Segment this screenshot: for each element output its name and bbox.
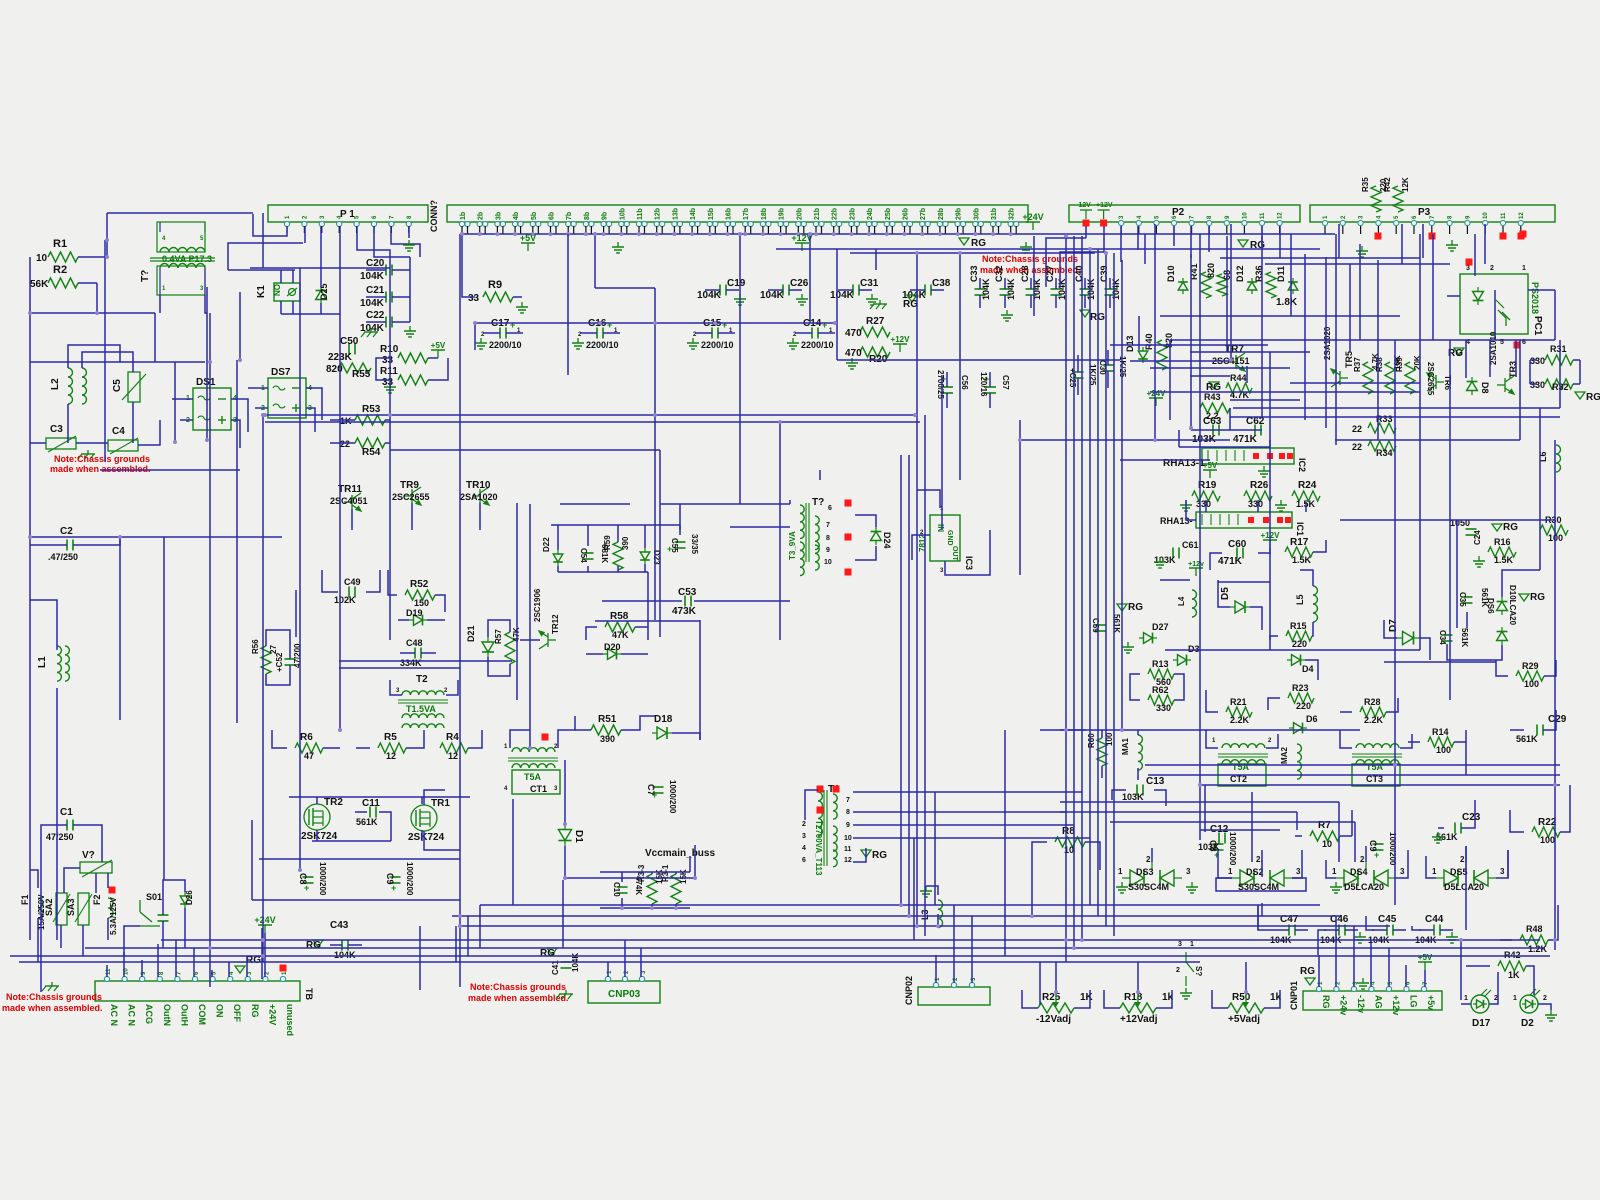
wire v <box>1226 236 1228 352</box>
svg-text:C57: C57 <box>1001 375 1010 390</box>
ground <box>1335 882 1337 887</box>
svg-text:23b: 23b <box>849 208 856 220</box>
svg-text:D18: D18 <box>654 714 673 725</box>
wire C3-C4 wires <box>30 442 46 444</box>
svg-text:22: 22 <box>1352 424 1362 434</box>
wire R3 leads <box>651 872 653 874</box>
svg-text:R8: R8 <box>1062 826 1075 837</box>
capacitor C13 <box>1136 785 1138 796</box>
resistor R28 <box>1360 707 1386 717</box>
capacitor C32 <box>1000 288 1011 290</box>
wire C48 lead2 <box>421 652 436 654</box>
svg-text:1000/200: 1000/200 <box>405 862 414 896</box>
wire h <box>1290 382 1420 384</box>
svg-text:1.5K: 1.5K <box>1292 555 1312 565</box>
wire F2 wires <box>107 918 109 940</box>
power +24V <box>1155 398 1157 406</box>
capacitor C30 <box>1103 364 1114 366</box>
capacitor C62 <box>1254 425 1256 436</box>
red square <box>845 569 852 576</box>
red square <box>833 786 840 793</box>
resistor R53 <box>355 415 385 425</box>
wire R5 wires <box>406 730 424 748</box>
svg-text:C34: C34 <box>1438 630 1447 645</box>
wire Vccmain wires <box>694 845 696 856</box>
wire h <box>1265 263 1450 265</box>
svg-text:C38: C38 <box>932 278 951 289</box>
resistor R36 <box>1266 272 1276 298</box>
svg-text:R21: R21 <box>1230 697 1247 707</box>
svg-text:+12V: +12V <box>1096 202 1113 209</box>
transistor TR12 <box>539 631 556 649</box>
wire C52 to T2 <box>339 660 512 662</box>
wire R56 C52 net2 <box>266 674 290 685</box>
capacitor C57 <box>984 386 996 388</box>
svg-text:C48: C48 <box>406 638 423 648</box>
wire +5V lead <box>1424 970 1426 987</box>
resistor R51 <box>591 725 621 735</box>
wire R15 wires <box>1270 636 1278 650</box>
svg-text:R31: R31 <box>1550 344 1567 354</box>
wire h <box>1150 391 1420 393</box>
svg-text:30b: 30b <box>973 208 980 220</box>
svg-text:D24: D24 <box>882 532 892 549</box>
svg-text:C45: C45 <box>1378 914 1397 925</box>
svg-text:25b: 25b <box>885 208 892 220</box>
wire h <box>1170 339 1555 341</box>
wire v <box>1377 260 1379 383</box>
wire T1 primary <box>205 295 207 313</box>
transformer T? 0.4VA <box>159 222 161 232</box>
wire v <box>567 234 569 375</box>
wire h <box>265 421 920 423</box>
svg-text:R15: R15 <box>1290 621 1307 631</box>
wire v <box>564 782 566 824</box>
svg-text:12: 12 <box>448 751 458 761</box>
wire P1 pin5 wire <box>357 226 390 268</box>
svg-text:DS4: DS4 <box>1350 867 1368 877</box>
wire DS4 wires <box>1326 860 1336 878</box>
wire C11 right <box>379 812 391 841</box>
potentiometer R50 <box>1228 1003 1264 1013</box>
svg-text:CNP02: CNP02 <box>904 976 914 1005</box>
wire P2 pin drop <box>1190 226 1192 258</box>
wire h <box>10 955 1550 957</box>
svg-text:390: 390 <box>600 734 615 744</box>
svg-text:R40: R40 <box>1144 333 1154 350</box>
wire R52 wires <box>435 595 445 612</box>
wire R22 wires <box>1560 785 1570 832</box>
svg-text:+24V: +24V <box>267 1004 277 1025</box>
wire v <box>1199 234 1201 840</box>
wire v <box>1113 253 1115 936</box>
wire h2 <box>558 571 648 573</box>
svg-text:12: 12 <box>844 857 852 864</box>
svg-text:33: 33 <box>382 355 394 366</box>
wire h2 <box>385 442 390 444</box>
wire P2 pin2 route <box>1060 252 1104 287</box>
svg-text:2200/10: 2200/10 <box>801 340 834 350</box>
ground <box>1025 242 1027 247</box>
capacitor C27 <box>1051 288 1062 290</box>
wire v2 <box>1251 792 1253 862</box>
wire v2 <box>1351 810 1353 836</box>
svg-text:9b: 9b <box>602 212 609 220</box>
wire v <box>96 283 98 313</box>
wire D7 wires <box>1419 638 1430 660</box>
svg-text:2: 2 <box>1460 855 1465 864</box>
ground <box>1451 932 1453 937</box>
svg-text:C29: C29 <box>1548 714 1567 725</box>
wire C13 wires <box>1154 790 1166 806</box>
red square <box>1466 259 1473 266</box>
wire C47 row wires <box>1258 905 1274 930</box>
wire R50 wires <box>1212 990 1228 1008</box>
wire h2 <box>1340 519 1555 521</box>
wire R6 wires <box>272 730 287 748</box>
svg-text:DS5: DS5 <box>1450 867 1468 877</box>
wire h <box>250 267 390 269</box>
svg-text:1: 1 <box>1332 867 1337 876</box>
wire v2 <box>644 564 646 572</box>
svg-text:T2700VA_T113: T2700VA_T113 <box>814 820 823 876</box>
power +12V <box>801 243 803 251</box>
wire v2 <box>1489 340 1491 377</box>
svg-text:+5v: +5v <box>1426 995 1436 1010</box>
wire DS1 wires <box>180 419 193 421</box>
svg-text:2b: 2b <box>478 212 485 220</box>
ground RG <box>1575 392 1585 399</box>
svg-text:R59: R59 <box>603 535 612 550</box>
capacitor C17 <box>499 328 501 339</box>
wire v <box>1419 234 1421 650</box>
capacitor C45 <box>1386 925 1388 936</box>
regulator IC3 <box>930 515 960 561</box>
wire v2 <box>1354 822 1356 862</box>
svg-text:2200/10: 2200/10 <box>701 340 734 350</box>
wire h <box>480 904 1320 906</box>
wire TR source link <box>312 840 391 842</box>
wire R29 wires <box>1544 660 1556 676</box>
capacitor C35 <box>1462 596 1473 598</box>
wire h2 <box>1060 801 1339 803</box>
wire h <box>390 449 660 451</box>
diode D19 <box>409 615 427 626</box>
wire C1 wires <box>41 825 52 992</box>
svg-text:+12V: +12V <box>891 335 911 344</box>
svg-text:OFF: OFF <box>232 1004 242 1022</box>
transistor TR11 <box>344 493 361 511</box>
wire MA1 wires <box>1137 730 1139 735</box>
capacitor C55 <box>675 541 686 543</box>
wire v <box>959 253 961 480</box>
ground <box>1185 500 1187 505</box>
svg-text:L1: L1 <box>37 656 48 668</box>
wire v <box>1554 440 1556 950</box>
wire D4 wires <box>1305 660 1318 680</box>
wire C23 wires <box>1438 827 1444 829</box>
svg-text:R37: R37 <box>1353 357 1362 372</box>
svg-text:TR12: TR12 <box>551 614 560 634</box>
wire CT3 wires <box>1400 734 1412 748</box>
wire R8 wires <box>1085 842 1100 870</box>
svg-text:C31: C31 <box>860 278 879 289</box>
svg-text:22b: 22b <box>832 208 839 220</box>
wire h2 <box>1160 579 1190 581</box>
wire v2 <box>1204 785 1206 832</box>
svg-text:+: + <box>607 320 612 330</box>
svg-text:2SK724: 2SK724 <box>408 832 445 843</box>
capacitor C8b <box>303 876 314 878</box>
wire IC3 wires <box>917 490 940 508</box>
ground <box>1451 240 1453 245</box>
wire K1 top pins <box>280 270 282 283</box>
svg-text:1: 1 <box>1513 995 1517 1002</box>
svg-text:C24: C24 <box>1473 530 1482 545</box>
fuse F1 <box>38 898 43 918</box>
resistor R27 <box>860 327 890 337</box>
svg-text:R1: R1 <box>53 238 67 250</box>
red square <box>845 500 852 507</box>
wire IC3 wires <box>945 530 990 575</box>
wire DS1 wires <box>172 398 193 400</box>
resistor R20 <box>860 347 890 357</box>
svg-text:T3_9VA: T3_9VA <box>788 531 797 560</box>
wire DS2 center <box>1261 850 1263 862</box>
wire h <box>595 287 655 289</box>
ground <box>1127 642 1129 647</box>
wire h <box>1165 649 1420 651</box>
svg-text:7: 7 <box>826 522 830 529</box>
resistor R23 <box>1288 693 1314 703</box>
wire v <box>1474 234 1476 276</box>
wire h <box>1020 439 1230 441</box>
diode D7 <box>1397 631 1419 644</box>
svg-text:OutN: OutN <box>162 1004 172 1026</box>
capacitor C53 <box>684 596 686 607</box>
capacitor C20 <box>385 265 387 276</box>
svg-text:D5LCA20: D5LCA20 <box>1444 882 1484 892</box>
svg-text:C13: C13 <box>1146 776 1165 787</box>
diode D20 <box>603 649 621 660</box>
resistor R52 <box>405 590 435 600</box>
wire D26 wires <box>163 880 185 905</box>
wire C11 left <box>355 811 367 813</box>
wire T1 primary <box>159 295 161 313</box>
wire R23 wires <box>1268 698 1280 710</box>
wire v <box>29 257 31 940</box>
svg-text:D5: D5 <box>1220 587 1231 600</box>
resistor R21 <box>1226 707 1252 717</box>
wire TB pin stubs <box>193 948 195 977</box>
inductor L6 <box>1556 445 1561 454</box>
wire h2 <box>1190 375 1230 377</box>
wire TR2 wires <box>1261 903 1263 916</box>
wire C10 bus2 <box>600 907 690 909</box>
diode D27 <box>1139 633 1157 644</box>
resistor R9 <box>483 292 513 302</box>
svg-text:PC1: PC1 <box>1532 316 1543 336</box>
wire v <box>1559 340 1561 408</box>
svg-text:unused: unused <box>285 1004 295 1036</box>
power +24V <box>264 925 266 933</box>
diode D24 <box>871 527 882 545</box>
svg-text:470: 470 <box>845 328 862 339</box>
svg-text:2.2K: 2.2K <box>1364 715 1384 725</box>
wire P2 pin drop <box>1261 226 1263 246</box>
capacitor C25 <box>1073 371 1084 373</box>
wire v2 <box>1246 366 1248 383</box>
svg-text:S?: S? <box>1194 966 1203 976</box>
capacitor C31 <box>852 285 854 296</box>
wire v2 <box>1465 846 1467 930</box>
wire h2 <box>1295 835 1302 837</box>
svg-text:made when assembled.: made when assembled. <box>2 1003 103 1013</box>
wire v <box>779 422 781 640</box>
svg-text:20b: 20b <box>796 208 803 220</box>
wire v2 <box>1349 264 1351 352</box>
svg-text:R4: R4 <box>446 732 459 743</box>
resistor R15 <box>1286 631 1312 641</box>
ground RG <box>861 850 871 857</box>
wire R3 leads <box>675 904 677 908</box>
wire IC3 wires <box>912 535 930 560</box>
wire C23 wires <box>1461 800 1475 828</box>
resistor R30 <box>1540 525 1568 535</box>
svg-text:2.2K: 2.2K <box>1230 715 1250 725</box>
svg-text:-12V: -12V <box>1076 202 1091 209</box>
svg-text:D6: D6 <box>1306 714 1318 724</box>
resistor R40 <box>1157 340 1167 370</box>
wire v2 <box>1178 430 1180 447</box>
capacitor C9b <box>390 876 401 878</box>
svg-text:IC3: IC3 <box>964 556 974 570</box>
svg-text:8: 8 <box>846 809 850 816</box>
diode D25 <box>316 286 327 304</box>
resistor R39 <box>1405 362 1415 394</box>
wire C49 wires <box>366 570 380 592</box>
wire v <box>1353 926 1355 987</box>
wire R29 wires <box>1496 660 1508 676</box>
ground <box>389 382 391 387</box>
svg-text:K1: K1 <box>256 285 267 298</box>
svg-text:R18: R18 <box>1124 992 1143 1003</box>
svg-text:R17: R17 <box>1290 537 1309 548</box>
svg-text:D12: D12 <box>1235 265 1245 282</box>
svg-text:AG: AG <box>1374 995 1384 1009</box>
potentiometer R25 <box>1038 1003 1074 1013</box>
svg-text:IC1: IC1 <box>1295 522 1305 536</box>
wire v <box>1261 236 1263 418</box>
wire h <box>1335 439 1520 441</box>
svg-text:104K: 104K <box>1086 278 1096 300</box>
wire v <box>836 249 838 360</box>
wire h2 <box>1130 360 1230 362</box>
wire h2 <box>1573 359 1580 361</box>
svg-text:3: 3 <box>1466 265 1470 272</box>
svg-text:2SA1020: 2SA1020 <box>1323 326 1332 360</box>
wire h <box>1190 351 1310 353</box>
transistor TR3 <box>1497 376 1514 394</box>
svg-text:11: 11 <box>844 846 852 853</box>
svg-text:C49: C49 <box>344 577 361 587</box>
wire h <box>475 322 835 324</box>
wire R9 wires <box>513 296 522 298</box>
svg-text:SA3: SA3 <box>66 898 76 916</box>
svg-text:D22: D22 <box>542 537 551 552</box>
svg-text:47K: 47K <box>612 630 629 640</box>
capacitor C47 <box>1288 925 1290 936</box>
svg-text:C60: C60 <box>1228 539 1247 550</box>
ground <box>925 886 927 891</box>
transformer CT3 <box>1356 744 1365 748</box>
wire v <box>1081 236 1083 940</box>
wire h <box>565 877 695 879</box>
svg-text:T?: T? <box>812 497 824 508</box>
wire T2 leads <box>446 680 458 695</box>
svg-text:R5: R5 <box>384 732 397 743</box>
wire R17 wires <box>1313 540 1326 552</box>
wire v <box>1269 352 1271 640</box>
wire R28 wires <box>1340 711 1352 713</box>
resistor R2 <box>48 278 78 288</box>
wire h <box>100 469 240 471</box>
switch S01 <box>139 900 141 912</box>
resistor R19 <box>1192 491 1220 501</box>
wire L5 wires <box>1300 570 1313 586</box>
capacitor C49 <box>348 587 350 598</box>
wire C10 bus <box>600 871 690 873</box>
wire TR drain rail <box>289 796 470 798</box>
diode D22 <box>553 550 563 566</box>
svg-text:RG: RG <box>1530 592 1545 603</box>
capacitor C63 <box>1212 425 1214 436</box>
wire v2 <box>1269 440 1271 447</box>
wire h2 <box>1040 729 1086 731</box>
wire h2 <box>385 419 390 421</box>
wire D20 wires <box>621 653 648 655</box>
wire v <box>1097 249 1099 916</box>
capacitor C16 <box>596 328 598 339</box>
wire DS5 center <box>1465 846 1467 862</box>
wire DS7 wires <box>255 407 268 409</box>
svg-text:P3: P3 <box>1418 207 1431 218</box>
svg-text:3: 3 <box>1186 867 1191 876</box>
wire DS7 wires <box>306 388 322 420</box>
wire C20 rail <box>409 257 411 322</box>
svg-text:10: 10 <box>1242 212 1248 219</box>
wire TR2 wires <box>1261 860 1263 877</box>
wire h2 <box>853 791 1082 793</box>
svg-text:OUT: OUT <box>951 546 958 562</box>
wire v2 <box>1338 802 1340 862</box>
wire TB pin stubs <box>123 952 125 977</box>
ground <box>409 326 411 331</box>
wire v2 <box>587 525 589 546</box>
wire v2 <box>1554 290 1556 340</box>
wire C53 line <box>602 600 682 602</box>
wire v <box>1388 948 1390 987</box>
svg-text:LG: LG <box>1409 995 1419 1008</box>
chassis ground <box>87 450 89 454</box>
wire P2 pin drop <box>1208 226 1210 252</box>
svg-text:D20: D20 <box>604 642 621 652</box>
wire D1 wires <box>564 760 566 782</box>
svg-text:1: 1 <box>1432 867 1437 876</box>
wire R13 wires <box>1130 674 1140 700</box>
svg-text:R28: R28 <box>1364 697 1381 707</box>
svg-text:22: 22 <box>1352 442 1362 452</box>
